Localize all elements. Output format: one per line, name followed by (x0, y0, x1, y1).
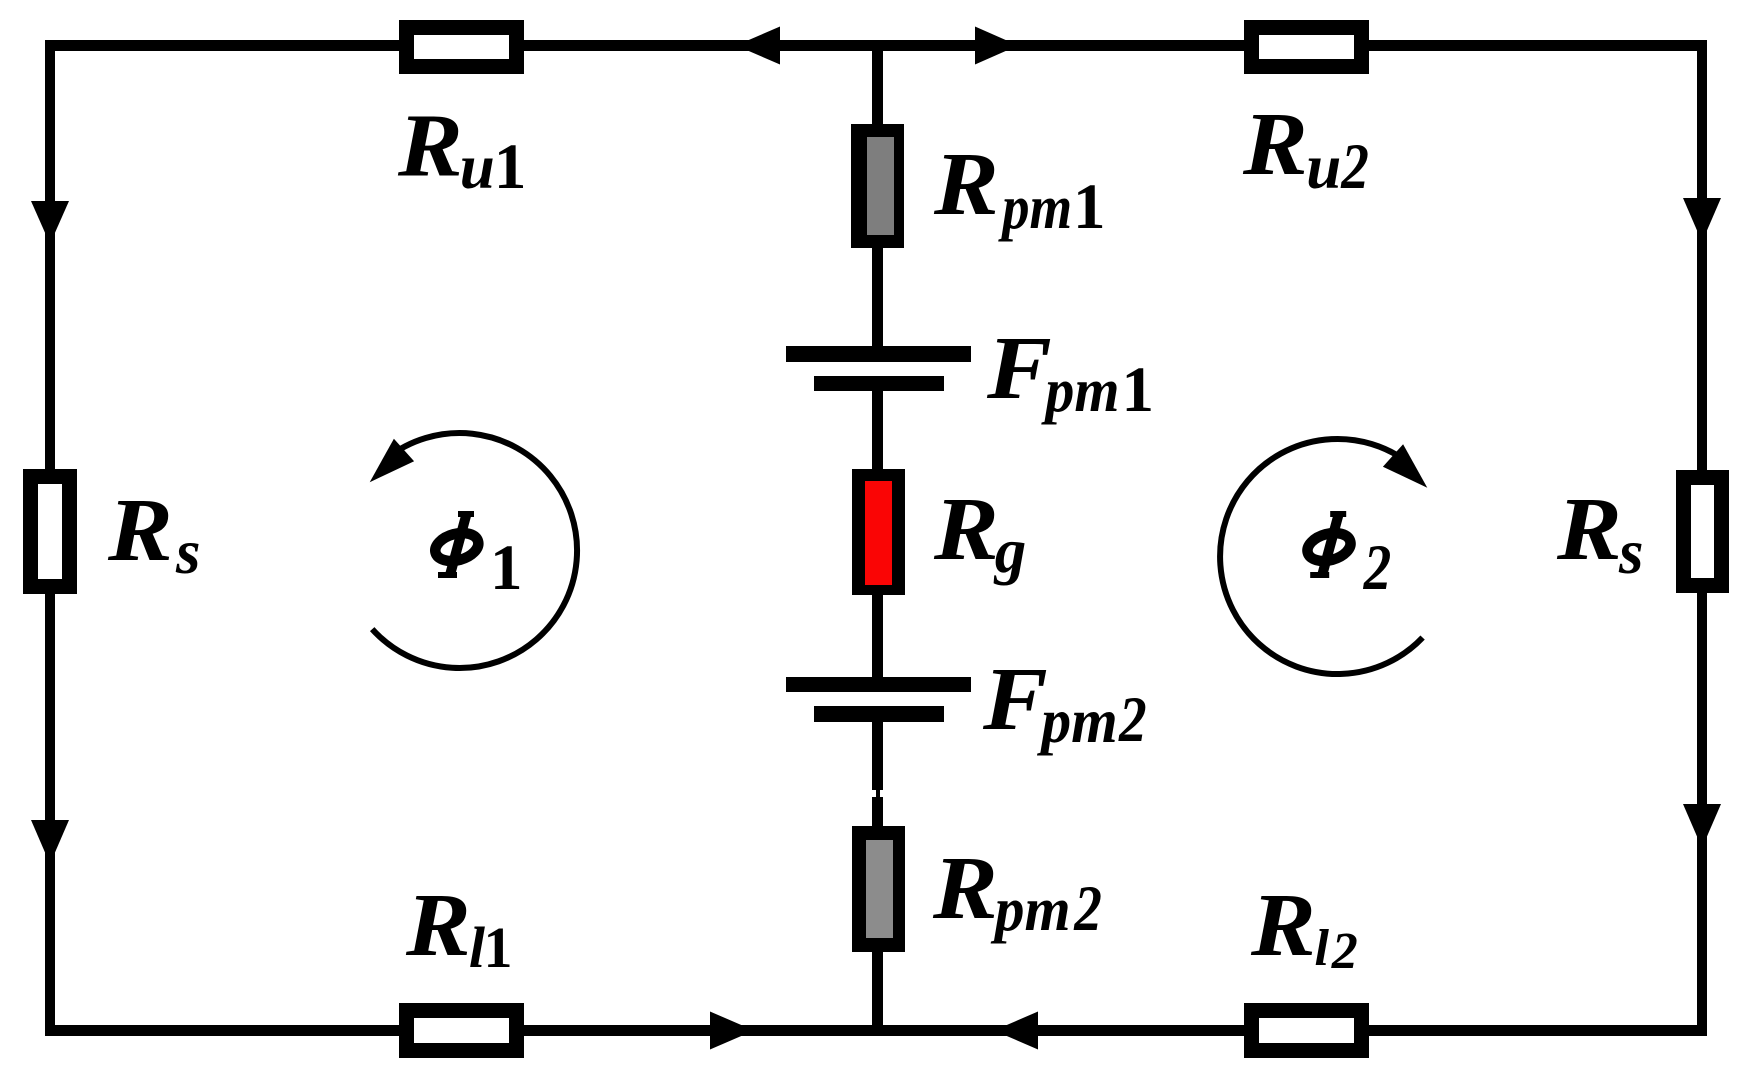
label Ru2 (1242, 95, 1369, 203)
svg-text:2: 2 (1331, 923, 1358, 980)
label Rs left (107, 481, 201, 587)
svg-text:pm: pm (1041, 356, 1120, 426)
svg-text:R: R (1556, 480, 1622, 579)
wire Fpm2 to Rpm2 (872, 721, 883, 827)
svg-text:2: 2 (1363, 532, 1392, 604)
svg-text:R: R (107, 481, 173, 580)
label Rpm1 (933, 135, 1106, 243)
svg-text:1: 1 (1122, 354, 1155, 426)
svg-text:u: u (460, 132, 495, 202)
label Ru1 (397, 97, 526, 203)
mmf source Fpm2 (short plate) (814, 706, 944, 722)
svg-text:2: 2 (1340, 131, 1369, 203)
resistor Rs right (1676, 470, 1729, 593)
wire right (1697, 40, 1707, 1036)
resistor Rs left (23, 469, 77, 594)
svg-text:1: 1 (484, 915, 513, 980)
svg-text:u: u (1306, 132, 1341, 202)
svg-text:2: 2 (1073, 873, 1102, 945)
svg-text:g: g (993, 516, 1027, 586)
resistor Rg (air gap, red) (852, 469, 905, 595)
wire Rpm2 to node bottom (872, 950, 883, 1034)
svg-text:1: 1 (494, 131, 527, 203)
label Rl2 (1250, 876, 1358, 980)
resistor Ru2 (1244, 20, 1369, 74)
label Fpm1 (986, 319, 1154, 426)
resistor Rl1 (399, 1003, 524, 1058)
flux arrow bottom wire pointing left (994, 1012, 1038, 1050)
loop arrow phi2 (clockwise arc) (1220, 439, 1423, 674)
resistor Ru1 (399, 20, 524, 74)
wire Rpm1 to Fpm1 (872, 247, 883, 347)
svg-text:s: s (1618, 517, 1644, 587)
svg-text:pm: pm (997, 171, 1072, 241)
svg-text:pm: pm (1036, 687, 1117, 757)
loop arrow phi1 head (370, 439, 414, 483)
svg-text:R: R (933, 480, 999, 579)
junction notch in wire (872, 790, 876, 797)
svg-text:R: R (933, 135, 999, 234)
flux arrow left wire lower, down (31, 820, 69, 864)
label Rg (933, 480, 1026, 586)
svg-text:F: F (986, 319, 1052, 418)
flux arrow right wire lower, down (1683, 804, 1721, 848)
flux arrow right wire upper, down (1683, 198, 1721, 242)
flux arrow on top wire pointing right (975, 27, 1018, 65)
resistor Rl2 (1244, 1003, 1369, 1058)
mmf source Fpm1 (short plate) (814, 376, 944, 391)
label Rpm2 (932, 839, 1102, 945)
mmf source Fpm2 (long plate) (786, 677, 971, 692)
svg-text:2: 2 (1118, 684, 1147, 756)
wire bottom (45, 1025, 1707, 1036)
flux arrow left wire upper, down (31, 201, 69, 244)
mmf source Fpm1 (long plate) (786, 346, 971, 362)
label Rs right (1556, 480, 1644, 587)
wire top (45, 40, 1707, 51)
wire Rg to Fpm2 (872, 594, 883, 678)
svg-text:R: R (1250, 876, 1316, 975)
flux arrow bottom wire pointing right (710, 1012, 754, 1050)
wire Fpm1 to Rg (872, 390, 883, 470)
label phi2 glyph (drawn) (1304, 511, 1353, 578)
svg-text:pm: pm (990, 875, 1071, 944)
svg-text:1: 1 (490, 532, 523, 604)
svg-text:R: R (932, 839, 998, 938)
label Fpm2 (982, 650, 1147, 756)
wire left (45, 40, 55, 1036)
resistor Rpm2 (permanent magnet 2, gray) (852, 826, 905, 952)
svg-text:F: F (982, 650, 1048, 749)
flux arrow on top wire pointing left (736, 27, 780, 65)
loop arrow phi1 (counterclockwise arc) (372, 433, 577, 668)
svg-text:l: l (1315, 920, 1330, 977)
svg-text:1: 1 (1073, 171, 1106, 243)
label Rl1 (405, 876, 513, 980)
label phi1 glyph (drawn) (432, 511, 481, 578)
svg-text:R: R (405, 876, 471, 975)
svg-text:R: R (397, 97, 463, 196)
svg-text:R: R (1242, 95, 1308, 194)
resistor Rpm1 (permanent magnet 1, gray) (851, 124, 904, 248)
svg-text:s: s (175, 517, 201, 587)
wire center: node top to Rpm1 (872, 45, 883, 125)
loop arrow phi2 head (1383, 444, 1427, 488)
